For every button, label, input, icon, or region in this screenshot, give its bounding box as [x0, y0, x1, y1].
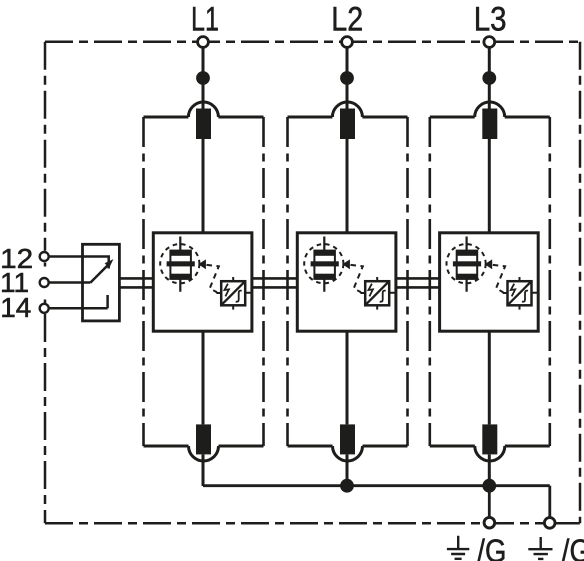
- svg-text:/G: /G: [477, 534, 506, 561]
- svg-text:L3: L3: [474, 0, 507, 38]
- svg-text:/G: /G: [562, 534, 584, 561]
- svg-text:L2: L2: [331, 0, 363, 38]
- svg-text:14: 14: [0, 292, 31, 323]
- svg-text:L1: L1: [191, 1, 219, 39]
